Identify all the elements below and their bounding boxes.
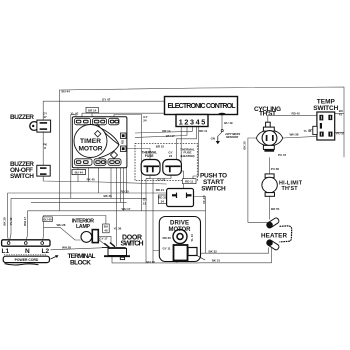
wire EC pin1 to start switch [181,127,183,189]
thermal fuse dashed box [135,143,197,180]
svg-text:SWITCH: SWITCH [10,173,34,180]
svg-text:BR 15: BR 15 [156,144,165,148]
door switch symbol [102,243,130,260]
wire WH17 EC line [135,136,187,138]
svg-text:WH 17: WH 17 [23,217,27,226]
svg-text:BR 55: BR 55 [271,207,280,211]
wire BK31 motor bottom [200,248,272,263]
EC capacitor stub [218,113,225,116]
wire timer YL43 stub down left side [71,115,76,199]
svg-text:WH 17: WH 17 [166,134,175,138]
wire timer drop t5 [120,166,122,203]
wire EC pin5 RD11 [198,127,200,132]
interior lamp [81,230,98,243]
wire BU19 sensor drop [221,115,223,130]
wire PU38 cycling to hi-limit [269,157,271,174]
wire timer drop t4 [110,166,112,199]
power cord [3,255,49,265]
svg-text:GN: GN [211,137,215,141]
timer cam lobe [95,126,120,159]
svg-text:GY 47: GY 47 [102,97,111,101]
wire timer drop t2 [88,166,90,182]
svg-text:40: 40 [104,229,108,233]
svg-text:FUSE: FUSE [145,154,154,158]
wire GY47 buzzer feed [43,101,164,120]
buzzer [30,120,51,132]
svg-text:PU 37: PU 37 [278,153,286,157]
svg-text:YL 43: YL 43 [71,111,79,115]
wire timer top OR14 [82,113,165,117]
svg-text:GY 17: GY 17 [99,236,108,240]
wire timer to thermal fuse [126,149,150,161]
svg-text:BK 25: BK 25 [243,141,247,150]
svg-text:BU 40: BU 40 [43,218,52,222]
wire label RD11 boxed [183,179,197,184]
wire label BU44 boxed [72,169,86,174]
wire timer drop t6 [123,166,125,211]
svg-text:TH'ST: TH'ST [259,111,276,118]
wire GY24 vertical [114,115,142,211]
terminal block pointer arrow [51,255,59,259]
svg-text:SWITCH: SWITCH [313,105,338,112]
SECTION: components [2,97,335,266]
svg-text:PK 45: PK 45 [87,177,95,181]
wire EC pin3 [192,127,194,132]
wire PU37 spur [335,132,344,134]
svg-text:41: 41 [339,112,343,116]
ground GN [216,132,222,144]
dryness sensor [221,130,223,132]
wire YL36 temp stub [309,129,313,131]
svg-text:BU 44: BU 44 [62,89,71,93]
wire WH38 cycling to temp switch [283,136,317,138]
svg-text:YL 10: YL 10 [190,234,194,242]
svg-text:YL 43: YL 43 [9,217,13,225]
svg-text:47: 47 [43,115,47,119]
wire timer drop t7 [126,168,128,193]
SECTION: wires [8,87,345,263]
SECTION: labels [2,89,345,266]
svg-text:BU 10: BU 10 [147,260,156,264]
svg-text:YL 36: YL 36 [114,226,122,230]
svg-text:MOTOR: MOTOR [79,145,103,152]
svg-text:BLOCK: BLOCK [70,259,91,266]
svg-text:RD 11: RD 11 [185,180,193,184]
svg-text:RD 42: RD 42 [292,111,301,115]
svg-text:BU 44: BU 44 [75,171,84,175]
wire PK8 buzzer to switch [42,132,44,166]
wire bus D WH17 [31,201,127,203]
svg-text:WH 28: WH 28 [62,246,71,250]
svg-text:BK 31: BK 31 [212,259,221,263]
svg-text:HEATER: HEATER [261,233,287,240]
wire bus E [28,210,206,212]
svg-text:GY 25: GY 25 [157,177,166,181]
svg-text:24: 24 [169,154,173,158]
wire long vertical to bottom 1 [145,179,147,264]
svg-text:GY 11: GY 11 [163,247,171,251]
svg-text:POWER CORD: POWER CORD [15,258,39,262]
svg-text:1 2 3 4 5: 1 2 3 4 5 [179,117,206,126]
svg-text:SWITCH: SWITCH [121,240,144,247]
wire BU44 top bus [59,87,344,157]
svg-text:RD 25: RD 25 [121,190,130,194]
svg-text:PU 38: PU 38 [271,167,279,171]
wire GY11 into motor [153,250,173,252]
timer cam diamond 2 [110,151,117,158]
wire left vertical from top bus [59,90,61,211]
heater [265,217,291,251]
svg-text:YL 36: YL 36 [304,129,312,133]
svg-text:21: 21 [143,201,147,205]
svg-text:24: 24 [143,119,147,123]
terminal block [2,234,50,246]
svg-text:RD 30: RD 30 [163,236,172,240]
svg-text:ELECTRONIC CONTROL: ELECTRONIC CONTROL [168,103,237,110]
wire bus B [8,192,167,194]
push to start switch [167,189,194,207]
svg-text:BK 26: BK 26 [104,194,113,198]
cycling thermostat [256,122,282,152]
wire GY17 lamp to lever [99,240,106,245]
wire RD42 cycling to temp switch [268,115,317,122]
svg-text:L2: L2 [42,248,50,255]
wire BK25 cycling to heater [248,138,268,222]
buzzer on-off switch [37,165,50,176]
wire WH28 door switch feed [51,248,102,250]
wire timer top stub to OR14 box [91,113,93,117]
wire timer drop t1 [77,166,79,182]
wire YL36 timer column through door switch [115,166,117,247]
svg-text:N: N [25,248,30,255]
wire OR14 EC line [135,131,193,133]
svg-text:RD 21: RD 21 [156,188,165,192]
svg-text:RD 11: RD 11 [199,129,207,133]
wire EC pin4 [177,127,197,160]
svg-text:34: 34 [161,200,165,204]
wire BR55 hi-limit to heater [269,196,271,219]
wire start switch to motor circuit [194,197,206,254]
svg-text:WH 28: WH 28 [57,223,66,227]
thermal fuse 2 (heater) [163,160,182,176]
svg-text:BK 29: BK 29 [3,217,7,226]
wire bus C [11,197,146,199]
svg-text:TIMER: TIMER [80,138,101,145]
timer right contact 2 [121,146,127,152]
svg-text:BUZZER: BUZZER [10,114,34,121]
hi-limit thermostat [262,174,277,196]
svg-text:TH'ST: TH'ST [282,186,299,192]
svg-text:(HEATER): (HEATER) [180,154,194,158]
svg-text:OR 14: OR 14 [162,129,171,133]
label box RD32/34 [158,195,166,204]
connector 12345 [176,115,208,127]
svg-text:SWITCH: SWITCH [201,185,226,192]
svg-text:WH 17: WH 17 [122,207,131,211]
wire WH28 lamp feed [44,227,81,240]
wire L1 second riser YL43 [10,198,12,234]
timer cam diamond 1 [95,131,101,137]
wire L2 riser BU40 [44,216,106,236]
wire EC pin2 [186,127,188,136]
timer right contact 1 [121,133,127,139]
label box BU40 lamp [103,224,110,233]
wire long vertical to bottom 2 [152,179,154,264]
drive motor [159,217,205,262]
wire fuse bottoms join [146,175,150,178]
wire BK32 motor to heater [200,248,269,254]
svg-text:PU 37: PU 37 [336,131,344,135]
wire A buzzer switch to fuse column [43,175,166,184]
svg-text:MOTOR: MOTOR [169,227,192,233]
wire N riser WH17 [27,211,29,235]
wire L1 riser [7,193,9,236]
svg-text:DRIVE: DRIVE [170,220,189,226]
svg-text:WH 38: WH 38 [290,133,299,137]
electronic control [165,97,238,115]
wire label BU40 boxed [43,217,53,222]
svg-text:BK 32: BK 32 [209,250,218,254]
temp switch [313,112,335,140]
svg-text:GY 34: GY 34 [202,195,206,204]
timer motor circle [74,125,107,158]
wire label OR14 boxed [86,107,98,112]
svg-text:L1: L1 [2,248,10,255]
wire BU10 door switch to motor [112,256,200,263]
thermal fuse 1 [141,160,160,176]
svg-text:LAMP: LAMP [76,224,91,230]
timer [72,117,127,168]
wire timer drop t3 [98,166,100,193]
svg-text:OR 14: OR 14 [88,108,97,112]
wire lamp to door switch [98,236,111,243]
svg-text:SENSOR: SENSOR [225,135,239,139]
svg-text:BU 19: BU 19 [224,121,233,125]
dryness sensor label [224,132,241,139]
